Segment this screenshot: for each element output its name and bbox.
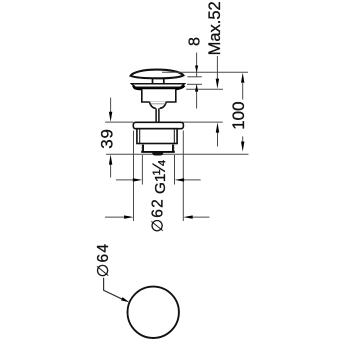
- dimension diameter62: right segment with left arrow: [192, 216, 209, 218]
- svg-text:8: 8: [186, 37, 203, 46]
- svg-text:Max.52: Max.52: [206, 1, 224, 55]
- bottom pip: [152, 152, 164, 155]
- dimension Max.52: lower shaft and up arrow: [217, 132, 219, 146]
- circle: plan view of cap: [128, 287, 179, 338]
- wire: extension line diameter62 right: [182, 131, 184, 222]
- wire: tick at open-cap level: [188, 76, 202, 78]
- dimension 100: lower shaft and down arrow: [242, 136, 244, 142]
- wire: extension line G1 1/4 left: [141, 155, 143, 185]
- wire: extension line flange-top right: [182, 121, 222, 123]
- wire: extension line G1 1/4 right: [174, 155, 176, 185]
- stem: [155, 108, 157, 122]
- dimension 39: lower shaft and up arrow: [110, 164, 112, 178]
- svg-text:39: 39: [97, 128, 116, 149]
- wire: extension line top (apex level): [162, 71, 248, 73]
- valve neck below cap: [153, 79, 164, 84]
- dimension G1 1/4: right segment with left arrow: [184, 179, 201, 181]
- dimension G1 1/4: left segment with right arrow: [116, 179, 134, 181]
- lower body: [137, 129, 177, 144]
- lower flange: [133, 122, 183, 128]
- leader line for diameter64: [104, 278, 122, 299]
- funnel shoulder: [149, 101, 166, 108]
- svg-text:G1¼: G1¼: [149, 160, 169, 194]
- dimension 8: lower shaft and up arrow: [196, 85, 198, 109]
- wire: extension line diameter62 left: [133, 131, 135, 222]
- seal washer under flange: [133, 86, 184, 90]
- svg-text:∅62: ∅62: [149, 198, 166, 232]
- wire: tick at cap-rim level: [187, 83, 202, 85]
- svg-text:100: 100: [229, 101, 248, 129]
- wire: extension line bottom (thread end): [106, 153, 249, 155]
- dimension 39: upper shaft and down arrow: [110, 98, 112, 113]
- svg-text:∅64: ∅64: [95, 243, 112, 277]
- wire: extension line basin level: [186, 88, 223, 90]
- upper flange disc: [132, 84, 185, 88]
- threaded tail: [141, 145, 175, 152]
- dimension 8: upper shaft and down arrow: [196, 53, 198, 77]
- upper body: [142, 89, 176, 102]
- dome cap (click-clack top): [131, 70, 184, 79]
- dimension diameter62: left segment with right arrow: [105, 216, 125, 218]
- dimension 100: up arrow and shaft: [241, 73, 244, 83]
- dimension Max.52: upper shaft and down arrow: [216, 56, 218, 80]
- wire: extension line flange-top left: [105, 121, 133, 123]
